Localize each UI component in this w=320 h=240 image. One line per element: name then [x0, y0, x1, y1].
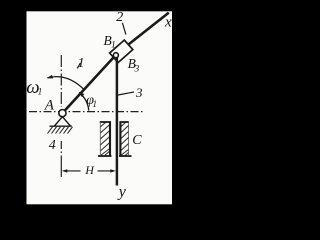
rod x-axis line 2 extension: [127, 13, 169, 46]
svg-text:3: 3: [134, 65, 140, 75]
svg-text:x: x: [164, 15, 172, 31]
support triangle at A: [54, 117, 70, 126]
guide C right block hatching: [121, 122, 129, 156]
rod 3: [116, 58, 119, 186]
pin B: [113, 53, 118, 58]
white panel: [27, 11, 173, 204]
svg-text:1: 1: [111, 41, 116, 51]
guide C right block edges: [120, 121, 129, 123]
H dimension right arrow: [98, 170, 115, 172]
svg-text:3: 3: [135, 85, 143, 100]
leader for label 3: [118, 92, 134, 95]
svg-text:1: 1: [38, 87, 43, 97]
svg-text:y: y: [117, 184, 127, 201]
svg-text:A: A: [44, 97, 55, 113]
guide C left block hatching: [100, 122, 110, 156]
omega-1 arc arrow: [48, 77, 85, 90]
pivot A circle: [59, 110, 66, 117]
phi-1 arc arrow: [79, 93, 89, 111]
svg-text:C: C: [132, 133, 142, 148]
svg-text:1: 1: [93, 99, 98, 109]
svg-text:1: 1: [78, 56, 85, 71]
crank link 1: [65, 55, 116, 111]
vertical centerline below A: [60, 141, 62, 177]
slider block 2: [110, 40, 133, 63]
leader for label 2: [122, 23, 126, 35]
svg-text:4: 4: [49, 138, 56, 153]
horizontal centerline through A: [29, 111, 143, 113]
svg-text:2: 2: [116, 10, 123, 25]
guide C left block edges: [100, 121, 111, 123]
support hatching: [48, 127, 73, 134]
H dimension left arrow: [64, 170, 81, 172]
leader for label 1: [77, 63, 80, 68]
svg-text:H: H: [84, 163, 95, 177]
support base line: [50, 125, 72, 127]
vertical centerline above A: [60, 55, 62, 107]
